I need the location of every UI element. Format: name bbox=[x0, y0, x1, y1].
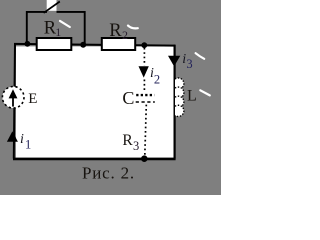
wire: top loop horizontal (switch branch) bbox=[26, 11, 86, 13]
svg-text:Рис. 2.: Рис. 2. bbox=[82, 164, 135, 183]
wire: left vertical of switch loop bbox=[26, 11, 28, 45]
label i3 bbox=[182, 52, 192, 71]
svg-text:E: E bbox=[28, 91, 37, 107]
svg-text:L: L bbox=[187, 87, 197, 104]
current arrow i2 bbox=[139, 66, 149, 77]
wire: middle branch dotted (upper) bbox=[143, 48, 145, 66]
node D (bottom, middle branch) bbox=[141, 155, 148, 162]
resistor R1 bbox=[37, 38, 72, 50]
label R2 bbox=[109, 21, 128, 42]
current arrow i1 bbox=[7, 131, 18, 141]
svg-text:C: C bbox=[122, 88, 134, 108]
label i2 bbox=[150, 66, 160, 87]
current arrow i3 bbox=[168, 56, 180, 67]
node A (top left, switch loop) bbox=[25, 41, 31, 47]
resistor R2 bbox=[102, 38, 135, 50]
capacitor C (dotted plates) bbox=[136, 95, 155, 102]
svg-text:2: 2 bbox=[154, 73, 160, 87]
svg-text:2: 2 bbox=[122, 28, 128, 42]
svg-text:3: 3 bbox=[186, 57, 192, 71]
node C-top (junction of middle branch) bbox=[141, 42, 147, 48]
white mark near R1 bbox=[60, 21, 70, 27]
svg-text:i: i bbox=[20, 132, 24, 147]
wire: right vertical of switch loop bbox=[84, 11, 86, 45]
wire: right vertical bbox=[174, 45, 176, 159]
label R3 bbox=[122, 132, 139, 153]
source E (circle with arrow) bbox=[2, 87, 24, 109]
white mark near L bbox=[200, 90, 210, 95]
wire: middle branch dotted (between i2 and C) bbox=[143, 80, 145, 93]
inductor L (4 bumps) bbox=[175, 78, 184, 117]
label R1 bbox=[44, 19, 61, 40]
wire: middle branch dotted (lower, through R3) bbox=[145, 105, 147, 156]
label i1 bbox=[20, 132, 31, 151]
svg-text:R: R bbox=[122, 132, 133, 149]
svg-text:1: 1 bbox=[25, 137, 31, 151]
white mark near R2 bbox=[128, 26, 138, 29]
node B (top right of R1, switch loop) bbox=[80, 42, 86, 48]
wire: left vertical bbox=[14, 44, 15, 159]
svg-text:1: 1 bbox=[55, 25, 61, 39]
switch S (gap + blade) bbox=[44, 0, 60, 13]
svg-text:3: 3 bbox=[133, 139, 139, 153]
svg-text:R: R bbox=[109, 21, 122, 41]
wire: bottom horizontal bbox=[13, 158, 176, 161]
wire: main top horizontal bbox=[14, 44, 175, 46]
white mark near i3 bbox=[196, 53, 205, 59]
